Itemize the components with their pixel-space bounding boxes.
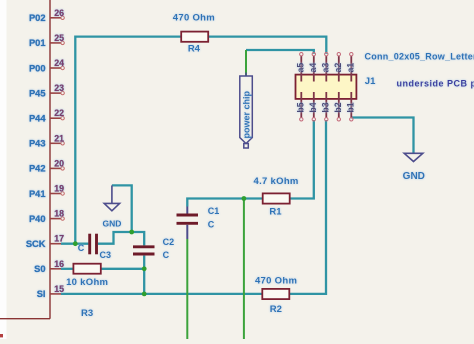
svg-text:a2: a2: [333, 63, 343, 73]
wire S0 pin to R3: [61, 268, 75, 270]
pin 15 stub: [50, 293, 61, 295]
wire GND branch: [112, 185, 132, 232]
chip pins stubs: [50, 18, 61, 294]
pin names: [26, 13, 46, 299]
svg-text:S0: S0: [34, 264, 45, 274]
junction R1/green: [242, 196, 247, 201]
J1 pins top a5..a1: [301, 56, 351, 82]
svg-text:17: 17: [54, 234, 64, 244]
svg-text:R2: R2: [270, 304, 282, 315]
pin 20 stub: [50, 167, 61, 169]
junction C2/SI: [142, 292, 147, 297]
svg-text:23: 23: [54, 83, 64, 93]
svg-text:P41: P41: [29, 189, 46, 199]
svg-text:SI: SI: [37, 289, 46, 299]
red fragment bottom-left: [0, 334, 3, 337]
pin 25 stub: [50, 42, 61, 44]
svg-text:16: 16: [54, 259, 64, 269]
svg-text:C3: C3: [100, 250, 112, 260]
pin 16 stub: [50, 268, 61, 270]
svg-text:C: C: [163, 250, 170, 260]
J1 pin end circles: [300, 53, 353, 122]
pin 18 stub: [50, 218, 61, 220]
svg-text:J1: J1: [365, 76, 376, 87]
capacitor C3: [90, 234, 97, 255]
connector J1 body: [296, 75, 357, 99]
J1 pins bottom b5..b1: [301, 92, 351, 118]
pin 23 stub: [50, 92, 61, 94]
capacitor C2: [133, 247, 155, 254]
svg-text:P44: P44: [29, 114, 46, 124]
svg-text:a1: a1: [345, 63, 355, 73]
svg-text:SCK: SCK: [26, 239, 46, 249]
resistor R2: [262, 289, 289, 299]
svg-text:4.7 kOhm: 4.7 kOhm: [254, 176, 299, 187]
wire b1 to GND right: [351, 118, 413, 154]
resistor R1: [263, 193, 290, 203]
junction C2/R3: [142, 266, 147, 271]
ground symbol right: [404, 153, 423, 161]
green wire from C1 bottom to bottom edge: [186, 239, 188, 339]
pin 22 stub: [50, 117, 61, 119]
resistor R4: [181, 32, 208, 42]
green wire power chip top: [245, 50, 247, 76]
svg-text:R4: R4: [188, 44, 201, 55]
svg-text:26: 26: [54, 8, 64, 18]
svg-text:b2: b2: [333, 102, 343, 112]
svg-text:25: 25: [54, 33, 64, 43]
wire power-chip net horizontal to a4: [246, 50, 314, 54]
svg-text:a3: a3: [320, 63, 330, 73]
svg-text:470 Ohm: 470 Ohm: [255, 275, 297, 286]
chip body bottom edge: [0, 318, 50, 320]
svg-text:20: 20: [54, 158, 64, 168]
wire SCK pin to C3: [61, 243, 88, 245]
pin 24 stub: [50, 67, 61, 69]
svg-text:power chip: power chip: [242, 90, 252, 138]
pin 21 stub: [50, 142, 61, 144]
unconnected pin end circles: [61, 16, 64, 220]
svg-text:P45: P45: [29, 88, 46, 98]
svg-text:18: 18: [54, 209, 64, 219]
wire SI line through R2 up to b3: [61, 120, 326, 294]
pin 17 stub: [50, 243, 61, 245]
power chip symbol: [240, 73, 253, 149]
svg-text:P00: P00: [29, 63, 46, 73]
svg-text:21: 21: [54, 133, 64, 143]
svg-text:b5: b5: [295, 102, 305, 112]
svg-text:b3: b3: [320, 102, 330, 112]
svg-text:15: 15: [54, 284, 64, 294]
svg-text:R3: R3: [81, 308, 93, 319]
svg-text:a4: a4: [308, 63, 318, 73]
junction at SCK / vertical: [73, 241, 78, 246]
pin 19 stub: [50, 193, 61, 195]
svg-text:19: 19: [54, 184, 64, 194]
svg-text:b4: b4: [308, 102, 318, 112]
svg-text:Conn_02x05_Row_Letter_First: Conn_02x05_Row_Letter_First: [365, 51, 474, 61]
svg-text:R1: R1: [269, 206, 282, 217]
wire C1 top to R1 up to b4: [187, 120, 313, 207]
pin 26 stub: [50, 17, 61, 19]
svg-text:24: 24: [54, 58, 64, 68]
svg-text:P01: P01: [29, 38, 46, 48]
svg-text:P42: P42: [29, 164, 46, 174]
svg-text:P40: P40: [29, 214, 46, 224]
ground symbol left: [104, 185, 119, 210]
left window edge strip: [0, 0, 7, 339]
capacitor C1: [177, 207, 199, 240]
svg-text:C: C: [78, 243, 85, 253]
green wire from R1 junction to bottom edge: [243, 199, 245, 340]
svg-text:10 kOhm: 10 kOhm: [66, 277, 108, 288]
junction at GND branch: [129, 230, 134, 235]
svg-text:470 Ohm: 470 Ohm: [173, 12, 215, 23]
svg-text:b1: b1: [345, 102, 355, 112]
wire P01-row net: R4 line horizontal, corner down to SCK junction, corner down to a3: [75, 37, 326, 244]
pin numbers: [54, 8, 64, 294]
wire C2 bottom to SI line: [143, 256, 145, 294]
chip body right edge: [49, 0, 51, 319]
svg-text:underside PCB pins: underside PCB pins: [397, 78, 474, 88]
svg-text:GND: GND: [403, 171, 425, 182]
svg-text:C2: C2: [163, 237, 175, 247]
wire R3 to C2 junction: [100, 268, 144, 270]
svg-text:C1: C1: [208, 206, 220, 216]
svg-text:P43: P43: [29, 139, 46, 149]
svg-text:C: C: [208, 220, 215, 230]
wire C3 right to GND junction to C2 top: [98, 232, 144, 245]
svg-text:GND: GND: [103, 219, 122, 229]
svg-text:a5: a5: [295, 63, 305, 73]
svg-text:22: 22: [54, 108, 64, 118]
svg-text:P02: P02: [29, 13, 46, 23]
resistor R3: [73, 264, 100, 274]
